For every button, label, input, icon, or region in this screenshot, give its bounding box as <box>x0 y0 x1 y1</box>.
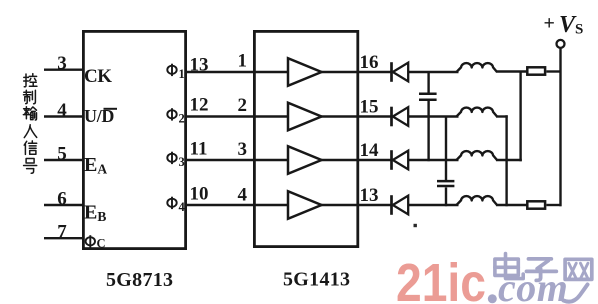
svg-text:3: 3 <box>57 53 67 74</box>
svg-text:7: 7 <box>57 222 67 243</box>
capacitor C2 <box>437 181 454 186</box>
wire U2 pin to diode D4 <box>357 204 391 206</box>
svg-text:4: 4 <box>179 200 186 214</box>
svg-text:6: 6 <box>57 189 67 210</box>
svg-text:14: 14 <box>360 140 380 161</box>
pin label phi4 <box>167 197 185 214</box>
wire U2 input lead 3 <box>255 159 288 161</box>
wire diode D4 to coil <box>408 204 459 206</box>
svg-text:3: 3 <box>238 139 248 160</box>
inductor L1 (phase 1 winding) <box>457 63 498 72</box>
diode D2 <box>392 107 409 127</box>
wire node A upper (row1 to C1) <box>427 72 429 93</box>
inductor L4 (phase 4 winding) <box>457 196 498 205</box>
svg-text:10: 10 <box>190 184 209 205</box>
logo hanzi 网 <box>565 259 592 279</box>
logo m swash <box>564 285 588 302</box>
label hanzi 输 (input) <box>23 107 36 120</box>
wire junction drop x507 (row2 to row4) <box>505 115 507 206</box>
svg-text:13: 13 <box>360 185 379 206</box>
wire U2 output lead 3 <box>321 159 358 161</box>
svg-text:21ic: 21ic <box>396 253 486 304</box>
wire U2 input lead 4 <box>255 204 288 206</box>
wire diode D2 to coil <box>408 115 459 117</box>
pin label phi3 <box>167 152 184 169</box>
op-amp U1 5G8713 package outline <box>83 31 185 248</box>
svg-text:5G1413: 5G1413 <box>283 269 350 291</box>
wire U2 pin to diode D3 <box>357 159 391 161</box>
wire input stub pin 6 <box>44 204 84 206</box>
buffer U2C triangle <box>288 146 322 174</box>
buffer U2D triangle <box>288 191 322 219</box>
inductor L2 (phase 2 winding) <box>457 108 498 117</box>
wire row4 tail (L4 out to R2) <box>496 204 527 206</box>
scan speck <box>414 224 417 227</box>
resistor R2 <box>527 201 545 208</box>
svg-text:com: com <box>498 265 568 304</box>
wire phi3 U1 to U2 <box>187 159 254 161</box>
label hanzi 号 <box>24 159 37 174</box>
wire U2 output lead 4 <box>321 204 358 206</box>
wire junction drop x520 (row1 to row3) <box>519 72 521 162</box>
pin label phi1 <box>167 64 184 81</box>
label hanzi 控 (control) <box>24 74 37 87</box>
wire U2 input lead 2 <box>255 115 288 117</box>
svg-text:5: 5 <box>57 144 67 165</box>
wire L1 out to R1 <box>496 70 527 72</box>
logo dot <box>488 294 497 303</box>
svg-text:11: 11 <box>190 139 208 160</box>
label hanzi 制 <box>24 90 36 104</box>
diode D3 <box>392 150 409 170</box>
svg-text:+: + <box>544 13 555 35</box>
buffer U2A triangle <box>288 58 322 86</box>
wire phi4 U1 to U2 <box>187 204 254 206</box>
wire input stub pin 4 <box>44 115 84 117</box>
wire U2 pin to diode D2 <box>357 115 391 117</box>
wire node B upper (row2 to C2) <box>445 117 447 181</box>
capacitor C1 <box>419 94 437 100</box>
diode D4 <box>392 195 409 215</box>
inductor L3 (phase 3 winding) <box>457 151 498 160</box>
svg-text:1: 1 <box>179 67 185 81</box>
wire U2 input lead 1 <box>255 71 288 73</box>
wire input stub pin 5 <box>44 159 84 161</box>
svg-text:2: 2 <box>238 95 248 116</box>
label hanzi 信 (signal) <box>24 141 37 155</box>
pin label phiC <box>86 235 106 250</box>
wire L2 out elbow <box>496 115 508 117</box>
wire U2 pin to diode D1 <box>357 71 391 73</box>
wire U2 output lead 2 <box>321 115 358 117</box>
wire row3 tail (L3 out to node) <box>496 159 522 161</box>
svg-text:S: S <box>575 22 583 38</box>
diode D1 <box>392 62 409 82</box>
svg-text:4: 4 <box>57 100 67 121</box>
logo hanzi 电 <box>495 254 523 279</box>
svg-text:C: C <box>97 237 106 251</box>
wire node A lower (C1 to row3) <box>427 101 429 161</box>
wire input stub pin 7 <box>44 237 84 239</box>
wire R1 to +Vs rail <box>546 70 561 72</box>
logo hanzi 子 <box>527 259 557 281</box>
svg-text:CK: CK <box>84 66 112 87</box>
wire input stub pin 3 <box>44 68 84 70</box>
wire R2 to +Vs rail <box>546 204 561 206</box>
svg-text:12: 12 <box>190 95 209 116</box>
svg-text:15: 15 <box>360 97 379 118</box>
op-amp U2 5G1413 package outline <box>254 31 357 246</box>
pin label phi2 <box>167 108 184 125</box>
wire phi2 U1 to U2 <box>187 115 254 117</box>
pin label U/D with overline <box>84 106 117 126</box>
wire diode D3 to coil <box>408 159 459 161</box>
terminal +Vs <box>557 40 565 48</box>
buffer U2B triangle <box>288 103 322 131</box>
svg-text:16: 16 <box>360 52 379 73</box>
svg-text:2: 2 <box>179 112 185 126</box>
wire node B lower (C2 to row4) <box>445 187 447 206</box>
svg-text:1: 1 <box>238 51 248 72</box>
resistor R1 <box>527 67 545 74</box>
svg-text:3: 3 <box>179 155 185 169</box>
label hanzi 入 <box>24 125 36 138</box>
label +Vs <box>544 12 584 38</box>
svg-text:5G8713: 5G8713 <box>106 269 173 291</box>
svg-text:4: 4 <box>238 185 248 206</box>
wire phi1 U1 to U2 <box>187 71 254 73</box>
wire +Vs rail <box>559 48 561 206</box>
wire U2 output lead 1 <box>321 71 358 73</box>
wire diode D1 to coil <box>408 71 459 73</box>
